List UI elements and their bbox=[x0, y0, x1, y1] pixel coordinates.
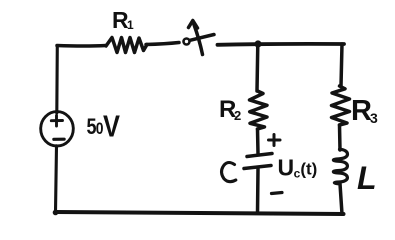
svg-text:Uc(t): Uc(t) bbox=[278, 155, 318, 181]
svg-text:50V: 50V bbox=[87, 109, 121, 144]
svg-text:3: 3 bbox=[370, 110, 378, 126]
svg-text:L: L bbox=[357, 160, 377, 196]
svg-text:2: 2 bbox=[234, 108, 241, 123]
svg-text:1: 1 bbox=[127, 18, 134, 32]
svg-text:R: R bbox=[351, 95, 372, 127]
